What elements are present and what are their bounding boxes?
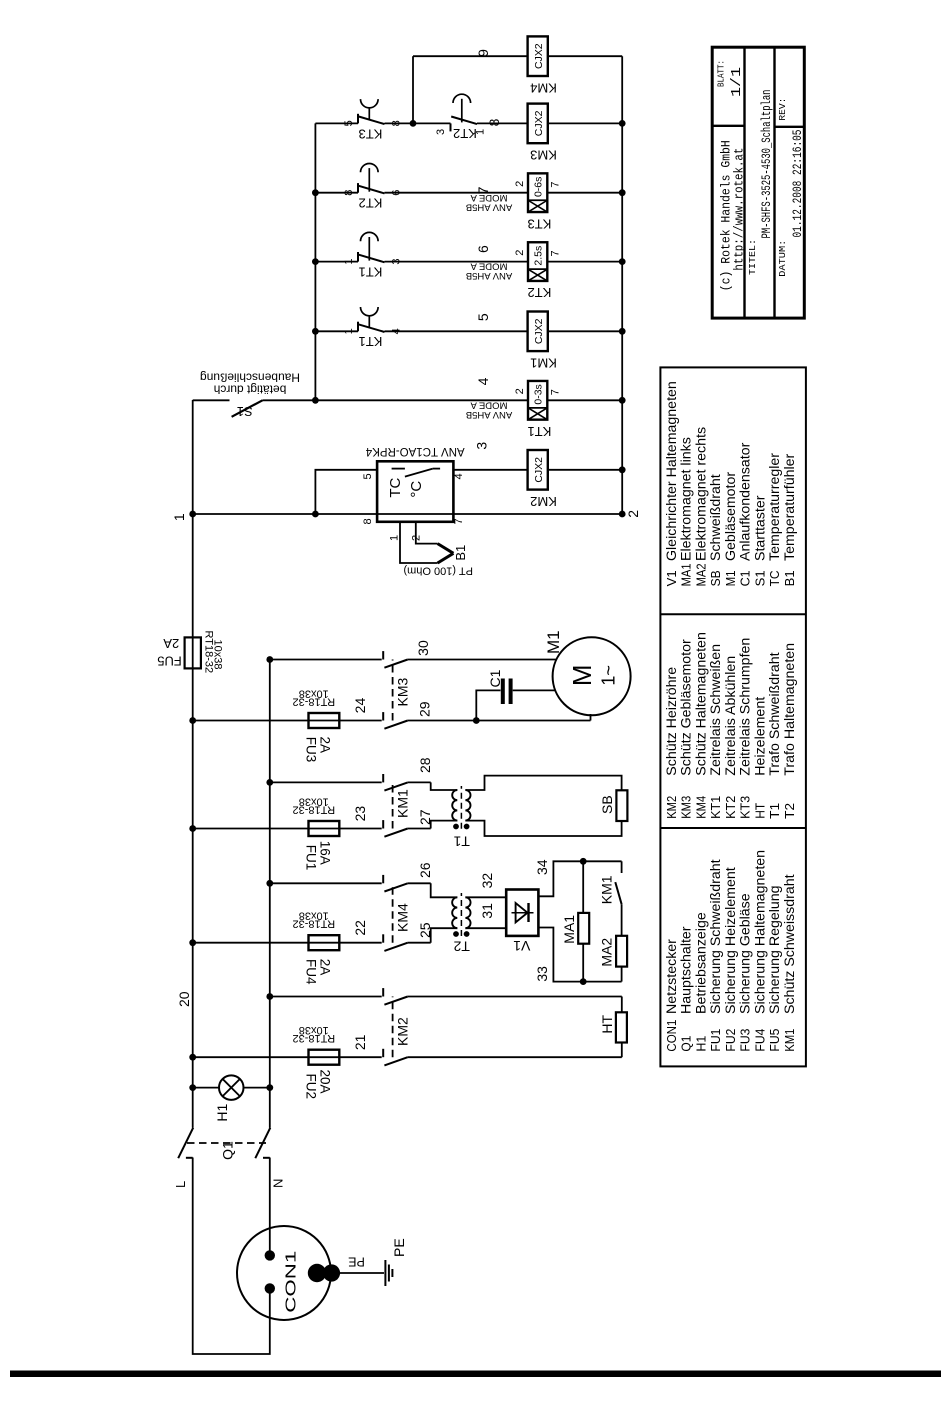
svg-text:V1: V1 [665,570,679,586]
svg-text:Sicherung Regelung: Sicherung Regelung [767,885,783,1014]
wire rung KM1 [315,330,622,332]
svg-text:Zeitrelais Abkühlen: Zeitrelais Abkühlen [723,656,739,776]
svg-text:Schütz Schweissdraht: Schütz Schweissdraht [782,874,798,1014]
CON1 pin N dot [265,1250,275,1260]
wire node 1 vertical to TC [193,513,623,515]
svg-text:Temperaturregler: Temperaturregler [767,453,783,561]
svg-text:KM3: KM3 [395,678,411,707]
svg-text:KM4: KM4 [530,80,557,95]
wire rung KM2 coil [453,469,622,471]
svg-text:Anlaufkondensator: Anlaufkondensator [738,442,754,561]
svg-text:Q1: Q1 [220,1141,236,1160]
svg-text:C1: C1 [487,669,503,687]
svg-text:Gleichrichter Haltemagneten: Gleichrichter Haltemagneten [664,381,680,561]
svg-text:21: 21 [352,1034,368,1050]
contact KM1 auxiliary [615,882,621,904]
switch S1 [232,400,263,417]
title block copyright text [719,140,747,291]
junction dot rung D on L rail [189,825,196,832]
svg-text:FU1: FU1 [304,845,319,871]
svg-text:FU1: FU1 [709,1029,723,1052]
wire S1 rung from node 1 [193,399,528,401]
svg-text:2: 2 [514,250,526,256]
svg-text:TC: TC [768,570,782,586]
svg-text:4: 4 [475,377,491,385]
svg-text:KM1: KM1 [599,875,615,904]
wire rung F net 22/25 [193,928,458,943]
svg-text:REV:: REV: [778,98,788,121]
FU3 name label [304,737,333,763]
svg-text:FU2: FU2 [304,1073,319,1099]
junction dot rung A on N rail [266,656,273,663]
svg-text:°C: °C [408,481,425,498]
svg-text:FU2: FU2 [724,1029,738,1052]
svg-text:MODE A: MODE A [470,261,508,272]
svg-text:Heizelement: Heizelement [752,697,768,776]
svg-text:KM1: KM1 [530,355,557,370]
junction dot KT1-node2 [619,397,626,404]
svg-text:10x38: 10x38 [299,795,329,807]
svg-text:T2: T2 [783,803,797,819]
electromagnet MA2 [616,936,627,967]
junction dot KM4 jumper [410,120,417,127]
svg-text:SB: SB [599,795,615,814]
svg-text:H1: H1 [214,1103,230,1121]
legend table frame [660,367,806,1066]
svg-text:Zeitrelais Schrumpfen: Zeitrelais Schrumpfen [738,638,754,776]
svg-text:PT (100 Ohm): PT (100 Ohm) [403,565,473,577]
wire rung KT3 [315,192,622,194]
svg-text:T1: T1 [768,803,782,819]
svg-text:L: L [173,1181,188,1188]
svg-text:7: 7 [549,181,561,187]
svg-text:Starttaster: Starttaster [752,495,768,561]
svg-text:T1: T1 [453,833,470,849]
junction dot H1-L [189,1084,196,1091]
wire N from CON1 to Q1 [269,1158,271,1256]
svg-text:M1: M1 [544,630,563,654]
wire node 2 rail [621,56,623,514]
coil KT2 timer 2.5s [466,242,552,300]
svg-text:MODE A: MODE A [470,399,508,410]
svg-text:Schütz Haltemagneten: Schütz Haltemagneten [693,632,709,776]
svg-text:HT: HT [753,802,767,818]
svg-text:FU5: FU5 [768,1029,782,1052]
wire distribution bus [314,123,316,400]
FU1 value label [292,795,335,815]
electromagnet MA1 [578,861,589,981]
svg-text:8: 8 [362,518,374,524]
svg-text:Schweißdraht: Schweißdraht [708,474,724,561]
svg-text:2A: 2A [317,737,332,754]
svg-text:KM1: KM1 [395,789,411,818]
svg-text:0-3s: 0-3s [532,384,544,404]
svg-text:KM2: KM2 [665,796,679,819]
coil KT1 timer 0-3s [466,381,552,439]
junction dot MA1 right [580,858,587,865]
svg-text:MA1: MA1 [680,563,694,586]
junction dot node1-TC branch [189,511,196,518]
temperature controller TC [377,461,453,522]
wire net 34 [538,861,621,896]
wire TC pin1 to B1 [400,522,438,563]
FU4 name label [304,959,333,985]
svg-text:2A: 2A [163,636,179,651]
FU5 name label [157,636,182,669]
legend column 3 text [664,381,798,586]
svg-text:Betriebsanzeige: Betriebsanzeige [693,912,709,1014]
contact KT2 (3-1, delayed NC) [451,94,478,131]
svg-text:Elektromagnet rechts: Elektromagnet rechts [693,427,709,561]
rectifier V1 [506,890,538,936]
svg-text:32: 32 [479,873,495,889]
svg-text:CJX2: CJX2 [533,43,545,69]
T2 polarity dots [453,931,469,937]
svg-text:CJX2: CJX2 [533,110,545,136]
coil KT3 timer 0-6s [466,173,552,231]
junction dot C1 branch [473,717,480,724]
contact KM2 pole H [383,1049,408,1066]
Q1 mechanical link (dashed) [187,1142,266,1144]
svg-text:2: 2 [514,181,526,187]
wire KM4 jumper [412,56,414,123]
junction dot rung G on N rail [266,993,273,1000]
KM4 link dashed [392,883,394,942]
svg-text:33: 33 [534,966,550,982]
legend column 1 text [664,850,798,1052]
svg-text:KT1: KT1 [709,796,723,819]
svg-text:30: 30 [415,640,431,656]
svg-text:S1: S1 [237,404,253,419]
svg-text:KT1: KT1 [359,334,383,349]
junction dot S1/distribution [312,397,319,404]
fuse FU1 [309,821,340,836]
svg-text:DATUM:: DATUM: [778,240,788,277]
svg-text:S1: S1 [753,570,767,586]
svg-text:CON1: CON1 [665,1020,679,1052]
fuse FU2 [309,1050,340,1065]
transformer T1 primary winding [452,790,457,821]
svg-text:1: 1 [475,129,487,135]
wire rung KM3 [315,122,622,124]
svg-text:01.12.2008 22:16:05: 01.12.2008 22:16:05 [790,130,805,238]
wire bottom path net 33-34 [621,861,623,981]
svg-text:M: M [567,664,597,686]
svg-text:Hauptschalter: Hauptschalter [679,926,695,1014]
svg-text:20: 20 [176,991,192,1007]
switch Q1 pole 1 (L) [178,1128,193,1159]
svg-text:C1: C1 [739,570,753,586]
svg-text:TITEL:: TITEL: [748,239,758,275]
contact KM1 pole D [383,820,408,837]
contact KM4 pole F [383,934,408,951]
heater HT [616,1012,627,1042]
svg-text:FU5: FU5 [157,654,182,669]
junction dot MA1 left [580,978,587,985]
svg-text:KT3: KT3 [359,126,383,141]
FU3 value label [292,687,335,707]
wire N rail [269,660,271,1128]
contact KM1 pole C [383,774,408,791]
svg-text:B1: B1 [453,545,468,561]
svg-text:1: 1 [343,328,355,334]
svg-text:1: 1 [389,535,401,541]
svg-text:KT2: KT2 [724,796,738,819]
svg-text:Sicherung Haltemagneten: Sicherung Haltemagneten [752,850,768,1014]
svg-text:MA2: MA2 [694,563,708,586]
svg-text:FU3: FU3 [739,1029,753,1052]
junction dot KT3-node2 [619,189,626,196]
switch Q1 pole 2 (N) [255,1128,270,1159]
svg-text:0-6s: 0-6s [532,177,544,197]
transformer T1 secondary winding [465,790,470,821]
coil KM4 [528,36,557,95]
svg-text:Zeitrelais Schweißen: Zeitrelais Schweißen [708,644,724,776]
junction dot rung E on N rail [266,880,273,887]
svg-text:10x38: 10x38 [299,1024,329,1036]
svg-text:N: N [271,1179,286,1188]
svg-text:7: 7 [549,250,561,256]
T1 polarity dots [453,824,469,830]
fuse FU5 [185,637,201,668]
svg-text:Sicherung Gebläse: Sicherung Gebläse [738,893,754,1014]
svg-text:2.5s: 2.5s [532,246,544,266]
CON1 PE pin dots [308,1264,340,1282]
svg-text:5: 5 [475,313,491,321]
transformer T2 core (dashed) [460,893,462,936]
motor M1 [553,637,631,715]
junction dot KM3-node2 [619,120,626,127]
svg-text:7: 7 [475,186,491,194]
svg-text:KT1: KT1 [359,265,383,280]
wire L from CON1 to Q1 [193,1158,270,1355]
svg-text:CJX2: CJX2 [533,318,545,344]
svg-text:BLATT:: BLATT: [717,60,727,87]
S1 note label [200,370,300,396]
svg-text:Schütz Heizröhre: Schütz Heizröhre [664,667,680,776]
contact KM4 pole E [383,875,408,892]
wire KT1 coil to node 2 [547,399,622,401]
contact KT1 (1-4, delayed) [358,307,385,332]
svg-text:2: 2 [625,510,641,518]
svg-text:3: 3 [474,442,490,450]
contact KT3 (5-8, delayed) [358,99,385,124]
wire rung B net 24/29 [193,714,591,721]
svg-text:8: 8 [391,120,403,126]
junction dot node2 left end [619,511,626,518]
wire to C1 [476,690,500,720]
svg-text:26: 26 [417,862,433,878]
svg-text:KT3: KT3 [527,216,551,231]
svg-text:2: 2 [514,388,526,394]
svg-text:1: 1 [343,258,355,264]
wire rung H net 21 [193,1043,622,1058]
wire T1 sec left to SB [465,821,621,836]
junction dot H1-N [266,1084,273,1091]
svg-text:29: 29 [417,701,433,717]
svg-text:KM1: KM1 [783,1029,797,1052]
svg-text:FU4: FU4 [753,1029,767,1052]
KM1 link dashed [392,782,394,828]
title block frame [712,47,804,318]
wire rung KM4 [413,55,622,57]
svg-text:4: 4 [391,328,403,334]
svg-text:25: 25 [417,922,433,938]
svg-text:PE: PE [391,1238,407,1257]
wire net 33 [538,928,621,982]
FU2 value label [292,1024,335,1044]
transformer T2 primary winding [452,897,457,928]
svg-text:6: 6 [391,190,403,196]
junction dot pin5 branch [312,511,319,518]
title block TITEL cell [748,90,774,276]
wire C1 to M1 [513,689,556,691]
svg-text:M1: M1 [724,570,738,586]
svg-text:CON1: CON1 [282,1251,299,1313]
svg-text:2: 2 [411,535,423,541]
svg-text:KT1: KT1 [527,424,551,439]
svg-text:4: 4 [453,473,465,479]
junction dot dist-KT3 rung [312,189,319,196]
FU1 name label [304,841,333,870]
junction dot KM1-node2 [619,328,626,335]
junction dot dist-KM1 rung [312,328,319,335]
junction dot KM2-node2 [619,466,626,473]
svg-text:3: 3 [391,258,403,264]
KM3 link dashed [392,660,394,721]
svg-text:6: 6 [475,245,491,253]
svg-text:10x38: 10x38 [299,687,329,699]
connector CON1 [237,1226,331,1320]
wire TC pin2 to B1 [416,522,438,544]
coil KM3 [528,104,557,163]
svg-text:HT: HT [599,1014,615,1033]
svg-text:SB: SB [709,570,723,586]
svg-text:8: 8 [343,190,355,196]
capacitor C1 [503,679,511,705]
svg-text:2A: 2A [317,959,332,976]
coil KM1 [528,312,557,371]
svg-text:34: 34 [534,859,550,875]
svg-text:Schütz Gebläsemotor: Schütz Gebläsemotor [679,639,695,776]
junction dot rung C on N rail [266,779,273,786]
ground PE symbol [385,1260,392,1286]
svg-text:http://www.rotek.at: http://www.rotek.at [732,148,747,271]
svg-text:ANV TC1AO-RPK4: ANV TC1AO-RPK4 [365,445,464,457]
svg-text:FU4: FU4 [304,959,319,985]
svg-text:Elektromagnet links: Elektromagnet links [679,437,695,561]
svg-text:MA1: MA1 [561,915,577,944]
sensor B1 (PT100) [438,544,454,563]
fuse FU3 [309,713,340,728]
junction dot KT2-node2 [619,258,626,265]
svg-text:Sicherung Heizelement: Sicherung Heizelement [723,867,739,1014]
svg-text:8: 8 [486,118,502,126]
svg-text:1: 1 [171,513,187,521]
svg-text:Haubenschließung: Haubenschließung [200,370,300,384]
title block BLATT cell [717,60,746,97]
svg-text:Netzstecker: Netzstecker [664,939,680,1014]
svg-text:3: 3 [435,129,447,135]
svg-text:7: 7 [453,518,465,524]
contact KM2 pole G [383,988,408,1005]
wire rung E net 26 [270,883,458,897]
svg-text:20A: 20A [317,1069,332,1093]
wire TC pin5 branch [315,470,377,514]
contact KT2 (8-6, delayed NC) [358,164,385,194]
svg-text:31: 31 [479,903,495,919]
svg-text:1/1: 1/1 [729,67,745,97]
contact KM3 pole B [383,712,408,729]
svg-text:B1: B1 [783,570,797,586]
svg-text:24: 24 [352,698,368,714]
KM2 link dashed [392,997,394,1058]
svg-text:KM3: KM3 [680,796,694,819]
wire PE [331,1272,384,1274]
svg-text:CJX2: CJX2 [533,457,545,483]
svg-text:KT3: KT3 [739,796,753,819]
svg-text:Sicherung Schweißdraht: Sicherung Schweißdraht [708,859,724,1014]
FU4 value label [292,910,335,930]
svg-text:Temperaturfühler: Temperaturfühler [782,453,798,561]
FU5 value label [202,630,223,673]
junction dot dist-KT2 rung [312,258,319,265]
svg-text:KM2: KM2 [395,1017,411,1046]
wire T1 sec right to SB [465,776,621,791]
wire rung C net 28 [270,782,458,790]
svg-text:KM4: KM4 [395,903,411,932]
svg-text:Trafo Haltemagneten: Trafo Haltemagneten [782,643,798,776]
wire rung D net 23/27 [193,821,458,829]
svg-text:Q1: Q1 [680,1036,694,1052]
svg-text:TC: TC [387,477,404,497]
svg-text:1~: 1~ [599,665,619,686]
fuse FU4 [309,935,340,950]
svg-text:PE: PE [348,1254,365,1268]
transformer T1 core (dashed) [460,786,462,829]
wire net 31 [465,927,506,929]
svg-text:5: 5 [362,473,374,479]
coil KM2 [528,450,557,509]
junction dot rung F on L rail [189,939,196,946]
lamp H1 [193,1075,270,1100]
resistor SB (Schweissdraht) [616,790,627,821]
svg-text:7: 7 [549,389,561,395]
svg-text:PM-SHFS-3525-4530_Schaltplan: PM-SHFS-3525-4530_Schaltplan [759,90,774,239]
svg-text:KM3: KM3 [530,147,557,162]
svg-text:23: 23 [352,806,368,822]
wire rung KT2 [315,261,622,263]
svg-text:H1: H1 [694,1036,708,1052]
svg-text:KM2: KM2 [530,494,557,509]
svg-text:KT2: KT2 [527,285,551,300]
svg-text:V1: V1 [513,938,530,954]
legend column 2 text [664,632,798,819]
svg-text:Gebläsemotor: Gebläsemotor [723,472,739,561]
svg-text:27: 27 [417,809,433,825]
svg-text:16A: 16A [317,841,332,865]
svg-text:10x38: 10x38 [212,640,224,670]
svg-text:KT2: KT2 [359,196,383,211]
wire rung G [270,997,622,1013]
wire rung A net 30 [270,659,556,661]
contact KM3 pole A [383,651,408,668]
junction dot rung H on L rail [189,1054,196,1061]
wire L rail node 20 [192,400,194,1128]
title block DATUM cell [778,130,805,277]
svg-text:9: 9 [475,49,491,57]
FU2 name label [304,1069,333,1098]
